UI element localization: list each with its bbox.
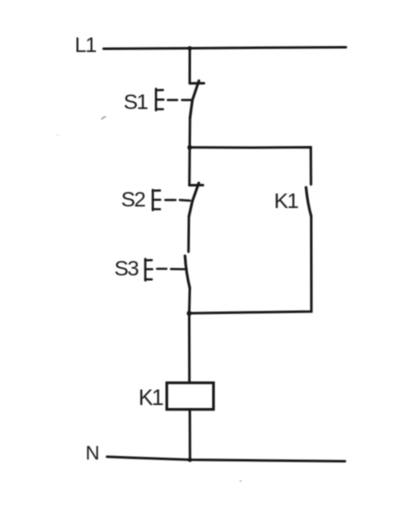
wire branch top (node A to contact K1) xyxy=(190,147,311,184)
pushbutton S2 (NC break contact) xyxy=(153,183,203,217)
junction node on N rail xyxy=(188,458,192,462)
svg-text:K1: K1 xyxy=(139,385,164,410)
pushbutton S3 (NO make contact) xyxy=(145,256,190,288)
S2 blade xyxy=(189,183,199,217)
pushbutton S1 (NC break contact) xyxy=(156,81,204,118)
S1 fixed terminal foot xyxy=(190,82,204,85)
S2 actuator bracket xyxy=(153,190,161,210)
wire L1 rail to S1 xyxy=(188,48,191,83)
S1 actuator bracket xyxy=(156,89,164,111)
S3 actuator bracket xyxy=(145,259,152,281)
S1 actuator dash link xyxy=(168,99,191,101)
scan specks (decorative) xyxy=(57,117,242,482)
S2 fixed terminal foot xyxy=(189,184,203,187)
wire S2 to S3 xyxy=(187,217,190,252)
coil K1 xyxy=(167,383,214,410)
wire N rail xyxy=(107,457,345,461)
svg-text:K1: K1 xyxy=(274,189,298,213)
node B junction xyxy=(187,311,192,316)
S3 blade xyxy=(185,256,190,288)
S2 actuator dash link xyxy=(165,199,190,202)
node A junction xyxy=(187,145,192,150)
svg-text:L1: L1 xyxy=(75,34,96,57)
svg-text:S3: S3 xyxy=(114,257,139,281)
contact K1 (NO seal-in contact) xyxy=(306,187,311,216)
wire coil K1 to N rail xyxy=(189,409,192,459)
svg-text:S1: S1 xyxy=(124,90,148,114)
S3 actuator dash link xyxy=(157,268,184,271)
wire branch bottom (contact K1 to node B) xyxy=(189,216,311,313)
junction node on L1 rail xyxy=(188,46,192,50)
wire S1 to node A xyxy=(188,118,191,148)
wire node B to coil K1 xyxy=(188,313,191,383)
svg-text:S2: S2 xyxy=(121,187,145,211)
S1 blade xyxy=(190,81,199,118)
wire node A to S2 xyxy=(188,147,191,185)
svg-text:N: N xyxy=(86,442,100,464)
wire L1 rail xyxy=(104,47,347,49)
wire S3 to node B xyxy=(188,288,191,313)
